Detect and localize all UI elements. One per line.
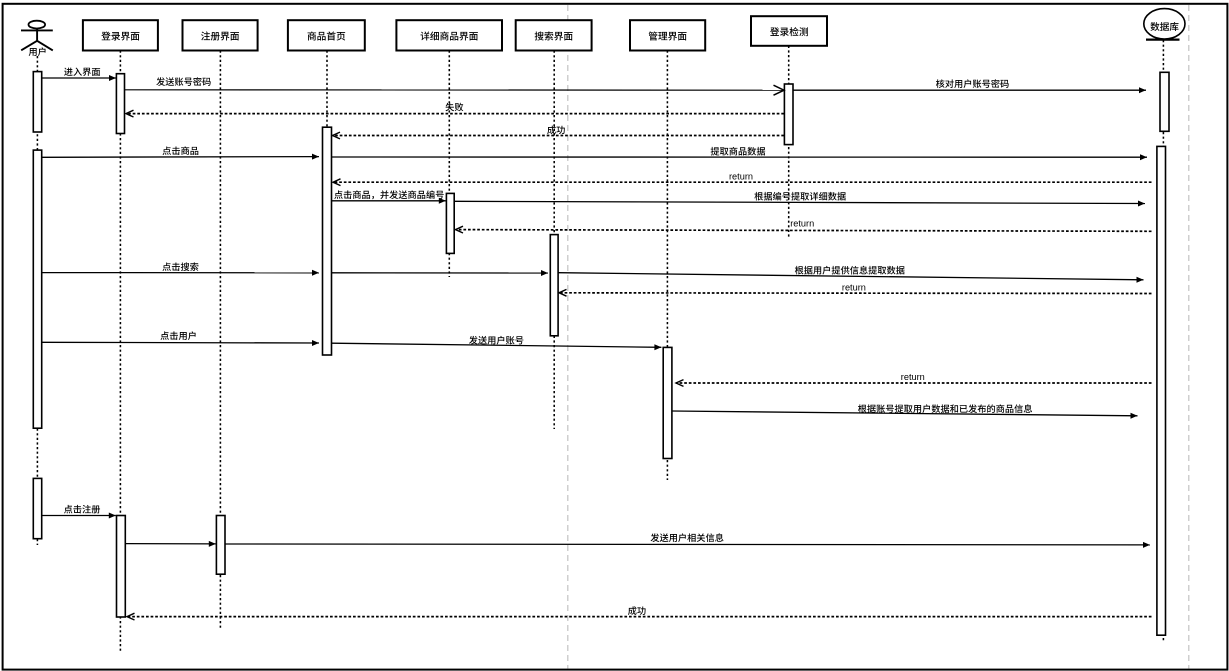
- activation bar 管理界面: [663, 347, 672, 458]
- database entity 数据库: [1144, 9, 1185, 40]
- message 失败 (dashed return): [126, 103, 784, 117]
- lifeline 用户 actor: [36, 56, 38, 545]
- object box 登录界面: [83, 20, 158, 50]
- message 成功 (dashed return): [333, 126, 785, 139]
- svg-text:return: return: [842, 282, 866, 292]
- lifeline 商品首页: [326, 51, 328, 355]
- message 点击商品: [42, 146, 319, 159]
- object box 详细商品界面: [396, 20, 502, 50]
- svg-text:return: return: [729, 171, 753, 181]
- page break divider 1: [567, 5, 569, 669]
- activation bar 搜索界面: [550, 235, 558, 336]
- activation bar 登录界面 #2: [117, 516, 126, 618]
- message return #1: [333, 171, 1152, 185]
- lifeline 登录检测: [788, 46, 790, 239]
- activation bar 详细商品界面: [446, 193, 454, 253]
- message 根据用户提供信息提取数据: [559, 266, 1144, 283]
- message return #3: [559, 282, 1152, 296]
- object box 搜索界面: [516, 20, 592, 50]
- svg-text:return: return: [790, 219, 814, 229]
- message 提取商品数据: [332, 147, 1147, 160]
- page break divider 2: [1188, 5, 1190, 669]
- activation bar 用户 #3: [33, 478, 41, 538]
- message return #2: [456, 219, 1152, 234]
- activation bar 商品首页: [323, 127, 332, 355]
- activation bar 数据库 #2: [1157, 146, 1166, 635]
- message 发送用户账号: [332, 336, 661, 350]
- activation bar 用户 #2: [33, 150, 41, 428]
- lifeline 登录界面: [119, 51, 121, 651]
- message 点击搜索: [42, 262, 319, 275]
- message 核对用户账号密码: [794, 79, 1147, 93]
- message 发送账号密码: [125, 77, 784, 95]
- message 成功 bottom (dashed return): [127, 606, 1152, 620]
- message relay to 注册界面: [126, 541, 216, 547]
- object box 注册界面: [183, 20, 258, 50]
- message 点击商品，并发送商品编号: [332, 190, 446, 203]
- activation bar 注册界面: [216, 516, 225, 575]
- svg-text:return: return: [901, 372, 925, 382]
- activation bar 登录检测: [784, 84, 793, 145]
- message relay 点击搜索 to 搜索界面: [332, 270, 548, 276]
- message return #4: [676, 372, 1152, 386]
- object box 商品首页: [288, 20, 365, 50]
- object box 登录检测: [751, 16, 827, 46]
- lifeline 注册界面: [219, 51, 221, 629]
- lifeline 详细商品界面: [448, 51, 450, 277]
- message 进入界面: [42, 68, 116, 81]
- message 点击注册: [42, 505, 116, 519]
- message 点击用户: [42, 331, 319, 346]
- activation bar 登录界面 #1: [116, 74, 124, 134]
- message 发送用户相关信息: [225, 533, 1150, 548]
- lifeline 数据库: [1162, 40, 1164, 642]
- lifeline 管理界面: [666, 51, 668, 480]
- actor 用户: [21, 21, 53, 56]
- lifeline 搜索界面: [553, 51, 555, 429]
- activation bar 数据库 #1: [1160, 72, 1169, 131]
- object box 管理界面: [630, 20, 705, 50]
- message 根据账号提取用户数据和已发布的商品信息: [672, 404, 1138, 418]
- activation bar 用户 #1: [33, 72, 41, 132]
- message 根据编号提取详细数据: [455, 192, 1145, 207]
